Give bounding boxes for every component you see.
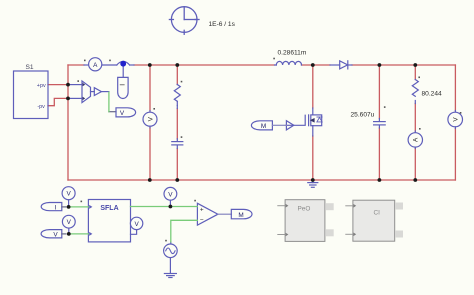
svg-text:0.28611m: 0.28611m xyxy=(278,50,307,57)
svg-text:I: I xyxy=(55,204,57,211)
svg-text:S1: S1 xyxy=(26,64,34,71)
svg-text:V: V xyxy=(53,232,58,239)
svg-text:-pv: -pv xyxy=(37,104,45,110)
svg-text:1E-6 / 1s: 1E-6 / 1s xyxy=(209,21,236,28)
svg-text:V: V xyxy=(66,191,71,198)
svg-text:80.244: 80.244 xyxy=(422,91,443,98)
svg-text:+pv: +pv xyxy=(37,83,46,89)
svg-text:V: V xyxy=(453,117,460,122)
svg-text:V: V xyxy=(168,191,173,198)
svg-text:+: + xyxy=(200,206,204,213)
svg-text:A: A xyxy=(413,137,420,142)
svg-text:M: M xyxy=(238,212,243,219)
svg-text:V: V xyxy=(120,110,125,117)
svg-text:PeO: PeO xyxy=(298,206,311,213)
svg-text:M: M xyxy=(261,123,266,130)
svg-text:V: V xyxy=(147,116,154,121)
svg-text:CI: CI xyxy=(374,210,381,217)
svg-text:25.607u: 25.607u xyxy=(351,112,375,119)
svg-text:−: − xyxy=(200,217,204,224)
svg-text:V: V xyxy=(67,219,72,226)
svg-text:A: A xyxy=(93,62,98,69)
svg-text:SFLA: SFLA xyxy=(100,205,118,212)
svg-text:V: V xyxy=(134,221,139,228)
